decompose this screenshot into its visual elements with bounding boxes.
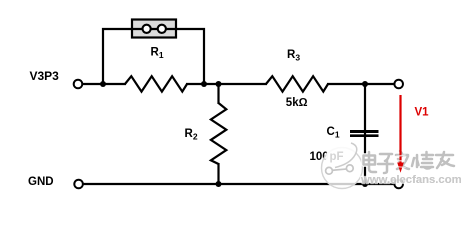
svg-text:V1: V1 (415, 107, 430, 119)
svg-text:R2: R2 (185, 128, 198, 142)
watermark logo (elecfans): big translucent disc (322, 148, 363, 189)
wire: top rail node A to R1 left lead (103, 83, 126, 85)
svg-text:R3: R3 (287, 49, 300, 63)
wire: vertical riser at node A up to jumper level (103, 29, 132, 84)
capacitor C1: vertical wire from top rail (364, 84, 366, 131)
V1 measurement arrow (red) (399, 95, 401, 164)
node: C1 top junction dot (362, 81, 368, 87)
node A junction dot (100, 81, 106, 87)
watermark CJK text (electronics-fans) pseudo-glyphs (364, 151, 455, 173)
resistor R2 zigzag (211, 103, 226, 164)
jumper shunt: right pin circle (158, 25, 166, 33)
jumper shunt (parallel with R1): body (132, 20, 176, 38)
svg-text:V3P3: V3P3 (30, 69, 60, 83)
terminal output top right (open circle) (394, 80, 403, 89)
svg-text:5kΩ: 5kΩ (286, 97, 308, 109)
jumper shunt: left pin circle (143, 25, 151, 33)
wire: GND rail (83, 183, 394, 185)
terminal GND (open circle) (74, 180, 83, 189)
terminal output bottom right (open circle) (394, 180, 403, 189)
jumper shunt: wire through body (132, 28, 176, 30)
capacitor C1: bottom plate (350, 134, 379, 137)
terminal V3P3 (open circle) (74, 80, 83, 89)
watermark logo: tail border curve (335, 143, 357, 168)
wire: R1 right lead to node B and on to node C and R3 left lead (186, 83, 267, 85)
wire: V3P3 terminal to node A (82, 83, 104, 85)
capacitor C1: top plate (350, 130, 379, 133)
resistor R3 zigzag (266, 76, 328, 91)
resistor R2: top lead from node C (217, 84, 219, 104)
node C junction dot (216, 81, 222, 87)
svg-text:R1: R1 (151, 47, 164, 61)
resistor R2: bottom lead to ground rail (217, 163, 219, 184)
watermark logo: leaf/tail blob covering label tail (326, 143, 357, 167)
wire: jumper right side down to node B (176, 29, 204, 84)
capacitor C1: vertical wire to ground rail (364, 131, 366, 184)
svg-text:GND: GND (28, 176, 54, 188)
svg-text:www.elecfans.com: www.elecfans.com (360, 174, 462, 186)
node B junction dot (201, 81, 207, 87)
svg-text:pF: pF (330, 151, 344, 163)
node: R2 bottom junction dot (216, 181, 222, 187)
wire: R3 right lead to output terminal (327, 83, 394, 85)
resistor R1 zigzag (125, 76, 187, 91)
node: C1 bottom junction dot (362, 181, 368, 187)
svg-text:C1: C1 (327, 126, 340, 140)
watermark logo: connecting bar and pad circles (326, 165, 354, 174)
